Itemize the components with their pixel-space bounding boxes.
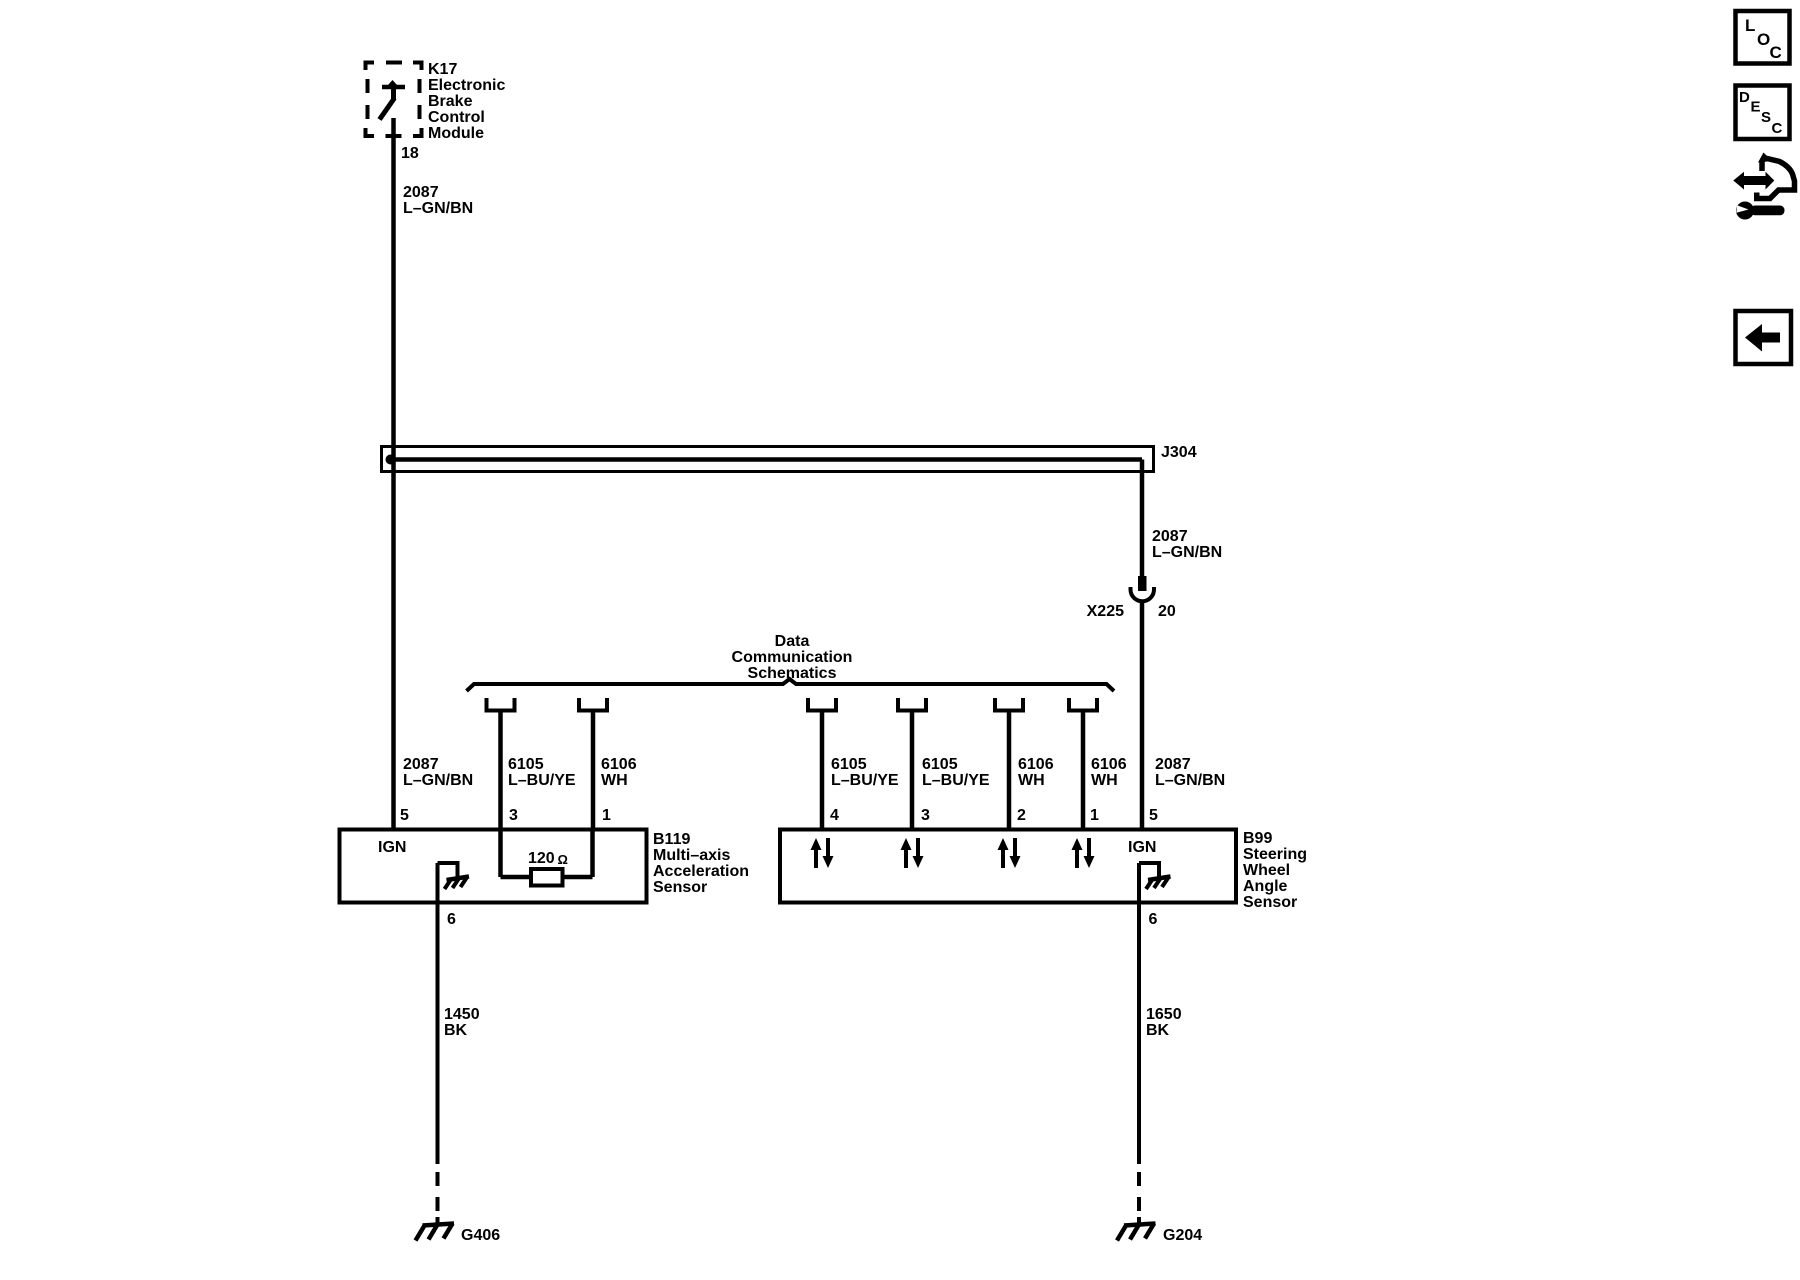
svg-text:X225: X225 <box>1087 603 1124 620</box>
svg-text:18: 18 <box>401 145 419 162</box>
svg-text:C: C <box>1772 120 1783 137</box>
dashed wire segment to G204 <box>1137 1172 1141 1224</box>
icon DESC box <box>1736 86 1790 140</box>
off-page connector cup (to B99 pin 1) <box>1069 698 1097 711</box>
wire label 6106 WH (B99 pin 2) <box>1018 756 1054 789</box>
svg-text:6106: 6106 <box>1018 756 1054 773</box>
off-page connector cup (to B99 pin 3) <box>898 698 926 711</box>
svg-text:L–GN/BN: L–GN/BN <box>403 772 473 789</box>
svg-text:L–BU/YE: L–BU/YE <box>922 772 990 789</box>
svg-text:1450: 1450 <box>444 1006 480 1023</box>
svg-text:D: D <box>1739 89 1750 106</box>
wire label 6106 WH (B119 pin 1) <box>601 756 637 789</box>
brace for data communication schematics <box>467 679 1115 691</box>
wire B119 pin 6 down (ground wire) <box>436 863 440 1164</box>
svg-text:Acceleration: Acceleration <box>653 863 749 880</box>
K17 internal switch symbol <box>380 80 406 120</box>
B99 label <box>1243 830 1307 911</box>
svg-text:IGN: IGN <box>378 839 406 856</box>
wire B99 pin 6 down (ground wire) <box>1137 863 1141 1164</box>
svg-text:L–GN/BN: L–GN/BN <box>1152 544 1222 561</box>
B119 internal wire pin 1 to resistor <box>562 831 593 877</box>
wire cup to B99 pin 4 (6105 L-BU/YE) <box>820 710 825 830</box>
wire cup to B99 pin 1 (6106 WH) <box>1081 710 1086 830</box>
svg-text:6: 6 <box>1149 911 1158 928</box>
wire label 6106 WH (B99 pin 1) <box>1091 756 1127 789</box>
icon back arrow box <box>1736 311 1792 364</box>
wire cup to B119 pin 3 (6105 L-BU/YE) <box>498 710 503 830</box>
wire J304 down to X225 <box>1140 460 1145 578</box>
K17 label <box>428 61 505 142</box>
svg-text:2087: 2087 <box>403 184 439 201</box>
wire cup to B99 pin 3 (6105 L-BU/YE) <box>910 710 915 830</box>
B99 bidirectional arrows pin 1 <box>1072 838 1095 868</box>
wire label 2087 L-GN/BN (left of B119 pin 5) <box>403 756 473 789</box>
Data Communication Schematics note <box>732 633 853 682</box>
svg-text:L–GN/BN: L–GN/BN <box>1155 772 1225 789</box>
svg-text:L–BU/YE: L–BU/YE <box>508 772 576 789</box>
svg-text:5: 5 <box>400 807 409 824</box>
svg-text:3: 3 <box>509 807 518 824</box>
svg-text:6105: 6105 <box>508 756 544 773</box>
svg-text:Wheel: Wheel <box>1243 862 1290 879</box>
svg-text:WH: WH <box>1018 772 1045 789</box>
resistor value label 120 ohm <box>528 850 568 867</box>
junction dot on J304 inner line <box>386 455 396 465</box>
wire label 6105 L-BU/YE (B119 pin 3) <box>508 756 576 789</box>
svg-text:Sensor: Sensor <box>1243 894 1297 911</box>
svg-text:B119: B119 <box>653 831 690 848</box>
wire label 2087 L-GN/BN (B99 pin 5) <box>1155 756 1225 789</box>
svg-text:BK: BK <box>1146 1022 1170 1039</box>
connector X225 male terminal <box>1138 576 1147 591</box>
svg-text:BK: BK <box>444 1022 468 1039</box>
ground G204 <box>1117 1224 1156 1241</box>
svg-text:L–BU/YE: L–BU/YE <box>831 772 899 789</box>
svg-text:2087: 2087 <box>403 756 439 773</box>
wire cup to B99 pin 2 (6106 WH) <box>1007 710 1012 830</box>
B99 bidirectional arrows pin 4 <box>811 838 834 868</box>
sensor B99 box <box>780 830 1236 903</box>
icon connector repair (arrows and wrench) <box>1733 153 1794 220</box>
B99 bidirectional arrows pin 3 <box>901 838 924 868</box>
off-page connector cup (to B119 pin 1) <box>579 698 607 711</box>
svg-text:4: 4 <box>830 807 839 824</box>
svg-text:1: 1 <box>1090 807 1099 824</box>
module K17 dashed box <box>366 63 422 137</box>
svg-text:O: O <box>1757 30 1770 49</box>
connector X225 female terminal <box>1131 587 1155 601</box>
ground G406 <box>416 1224 455 1241</box>
svg-text:Multi–axis: Multi–axis <box>653 847 730 864</box>
svg-text:WH: WH <box>1091 772 1118 789</box>
dashed wire segment to G406 <box>436 1172 440 1224</box>
svg-text:20: 20 <box>1158 603 1176 620</box>
svg-text:C: C <box>1770 43 1782 62</box>
svg-text:B99: B99 <box>1243 830 1272 847</box>
svg-text:2: 2 <box>1017 807 1026 824</box>
off-page connector cup (to B99 pin 4) <box>808 698 836 711</box>
svg-text:G204: G204 <box>1163 1227 1202 1244</box>
svg-text:Brake: Brake <box>428 93 473 110</box>
wire label 1450 BK <box>444 1006 480 1039</box>
wire X225 down to B99 pin 5 <box>1140 600 1145 830</box>
svg-text:6106: 6106 <box>601 756 637 773</box>
wire K17 pin 18 down to J304 and on to B119 pin 5 <box>391 118 396 830</box>
svg-text:Control: Control <box>428 109 485 126</box>
B99 internal ground symbol <box>1139 863 1171 889</box>
svg-text:Module: Module <box>428 125 484 142</box>
off-page connector cup (to B119 pin 3) <box>487 698 515 711</box>
B99 bidirectional arrows pin 2 <box>998 838 1021 868</box>
svg-text:Angle: Angle <box>1243 878 1288 895</box>
svg-text:6105: 6105 <box>831 756 867 773</box>
svg-text:1: 1 <box>602 807 611 824</box>
svg-text:Communication: Communication <box>732 649 853 666</box>
svg-text:L: L <box>1745 16 1755 35</box>
wire label 2087 L-GN/BN (upper left) <box>403 184 473 217</box>
icon LOC box <box>1736 11 1790 64</box>
svg-text:1650: 1650 <box>1146 1006 1182 1023</box>
svg-text:Ω: Ω <box>558 852 568 867</box>
svg-text:S: S <box>1761 109 1771 126</box>
svg-text:Electronic: Electronic <box>428 77 505 94</box>
svg-text:2087: 2087 <box>1152 528 1188 545</box>
resistor 120 ohm <box>531 869 563 886</box>
svg-text:Data: Data <box>775 633 810 650</box>
svg-text:6106: 6106 <box>1091 756 1127 773</box>
svg-text:Sensor: Sensor <box>653 879 707 896</box>
sensor B119 box <box>340 830 647 903</box>
svg-text:5: 5 <box>1149 807 1158 824</box>
wire label 6105 L-BU/YE (B99 pin 3) <box>922 756 990 789</box>
svg-text:K17: K17 <box>428 61 457 78</box>
B119 internal ground symbol <box>438 863 470 889</box>
svg-text:L–GN/BN: L–GN/BN <box>403 200 473 217</box>
svg-text:3: 3 <box>921 807 930 824</box>
svg-text:J304: J304 <box>1161 444 1197 461</box>
svg-text:2087: 2087 <box>1155 756 1191 773</box>
wire label 2087 L-GN/BN (right upper) <box>1152 528 1222 561</box>
B119 label <box>653 831 749 896</box>
B119 internal wire pin 3 to resistor <box>501 831 533 877</box>
wire label 6105 L-BU/YE (B99 pin 4) <box>831 756 899 789</box>
svg-text:6105: 6105 <box>922 756 958 773</box>
off-page connector cup (to B99 pin 2) <box>995 698 1023 711</box>
wire label 1650 BK <box>1146 1006 1182 1039</box>
svg-text:6: 6 <box>447 911 456 928</box>
svg-text:Steering: Steering <box>1243 846 1307 863</box>
svg-text:E: E <box>1751 99 1761 116</box>
svg-text:120: 120 <box>528 850 555 867</box>
svg-text:IGN: IGN <box>1128 839 1156 856</box>
splice pack J304 bus bar <box>382 447 1154 472</box>
svg-text:WH: WH <box>601 772 628 789</box>
svg-text:G406: G406 <box>461 1227 500 1244</box>
wire cup to B119 pin 1 (6106 WH) <box>591 710 596 830</box>
